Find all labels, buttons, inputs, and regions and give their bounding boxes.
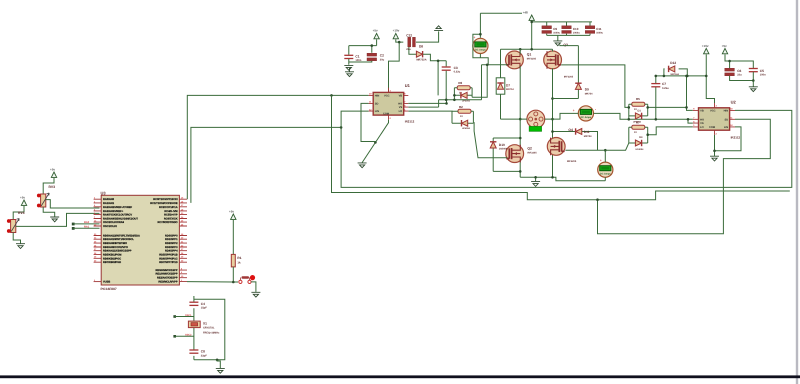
U1 COM diagonal to ground [362, 120, 388, 163]
capacitor C10 [562, 22, 581, 36]
wire C3 bottom to rail [445, 71, 447, 100]
svg-text:SD: SD [375, 102, 379, 105]
diode D8 [416, 45, 426, 62]
+48 supply arrow [523, 11, 535, 22]
junction [232, 281, 235, 284]
diode D11 [553, 128, 598, 150]
capacitor C1 [344, 54, 361, 62]
svg-text:RD6/SPP6/P1C: RD6/SPP6/P1C [159, 257, 177, 260]
wire C1/C2 bottom [349, 59, 372, 65]
gate driver U2 IR2112 (mirrored) [693, 99, 741, 139]
svg-text:22u: 22u [406, 48, 411, 51]
capacitor C9 [542, 22, 561, 36]
svg-text:+10v: +10v [393, 28, 400, 32]
svg-text:D7: D7 [506, 83, 510, 87]
+48 bus rail [532, 21, 592, 23]
svg-text:C8: C8 [201, 350, 205, 354]
svg-text:+48: +48 [523, 11, 528, 15]
svg-text:+: + [573, 109, 575, 113]
svg-text:RD7/SPP7/P1D: RD7/SPP7/P1D [159, 261, 177, 264]
svg-text:COM: COM [383, 112, 389, 115]
MCU pin numbers red ticks [94, 197, 184, 282]
svg-text:RD4/SPP4: RD4/SPP4 [165, 250, 178, 253]
gate resistor R5 + diode D1 loop (Q3 gate) [629, 97, 648, 124]
capacitor C7 [651, 76, 669, 119]
svg-text:VS: VS [700, 122, 704, 125]
ground below button [251, 292, 260, 297]
svg-text:U2: U2 [731, 99, 737, 104]
svg-text:RA0/AN0: RA0/AN0 [103, 198, 115, 201]
diode D7 with loop [496, 49, 514, 119]
wire R1 to MCLR [187, 267, 238, 282]
svg-text:RE3/MCLR/VPP: RE3/MCLR/VPP [158, 280, 177, 283]
svg-text:RA5/AN4/SS/HLVDIN/C2OUT: RA5/AN4/SS/HLVDIN/C2OUT [103, 218, 138, 221]
svg-text:1k: 1k [237, 260, 241, 264]
diode D10 with loop [490, 138, 520, 171]
ground below RV4 [13, 233, 25, 249]
svg-text:RA2/AN2/VREF-/CVREF: RA2/AN2/VREF-/CVREF [103, 206, 133, 209]
svg-text:LIN: LIN [375, 110, 379, 113]
svg-text:+: + [600, 158, 602, 162]
svg-text:U1: U1 [405, 83, 411, 88]
svg-text:LO: LO [700, 126, 704, 129]
ground below C1 [344, 65, 353, 70]
svg-text:1000u: 1000u [596, 32, 603, 35]
wire D8 right to C3/VB net [423, 54, 446, 95]
U1 HO rail to R6 [408, 100, 481, 107]
bridge top rail [501, 22, 553, 49]
ammeter AM3 wiring [604, 150, 606, 181]
svg-text:C7: C7 [662, 82, 666, 86]
U1 SD wire to diagonal [361, 103, 375, 142]
svg-text:D8: D8 [419, 45, 423, 49]
ground bottom crystal [216, 368, 225, 373]
capacitor C5 [749, 69, 766, 77]
gate resistor R7 + diode D4 loop (Q4 gate) [629, 120, 648, 150]
svg-text:VB: VB [399, 94, 403, 97]
svg-text:RC0/T1OSO/T13CKI: RC0/T1OSO/T13CKI [153, 198, 178, 201]
resistor R1 [231, 254, 241, 267]
ground below U2 [710, 156, 719, 161]
net label wire RA0 [72, 221, 100, 225]
svg-text:1000u: 1000u [553, 32, 560, 35]
crystal X1 [188, 321, 220, 334]
svg-text:0.25u: 0.25u [662, 87, 669, 90]
svg-text:HO: HO [398, 102, 402, 105]
svg-text:D10: D10 [499, 143, 505, 147]
power +5v above RV4 [13, 196, 26, 220]
svg-text:MR752A: MR752A [671, 73, 680, 76]
gate resistor R6 + diode D5 loop (Q1 gate) [454, 81, 472, 102]
svg-text:R7: R7 [636, 120, 640, 124]
svg-text:RE1/AN6/CK2SPP: RE1/AN6/CK2SPP [156, 273, 178, 276]
svg-text:MR752A: MR752A [416, 59, 426, 62]
MCU pin names text [103, 198, 140, 283]
ammeter AM1 wiring [473, 13, 522, 65]
svg-text:+: + [474, 36, 476, 40]
capacitor C11 [585, 22, 603, 36]
MCU pin stubs left group2 RB [94, 236, 102, 263]
svg-text:LO: LO [399, 110, 403, 113]
svg-text:VB: VB [700, 109, 704, 112]
R7 loop to U2 LO [648, 127, 693, 135]
svg-text:RE2/AN7/OESPP: RE2/AN7/OESPP [157, 277, 178, 280]
ground above U1 [345, 68, 354, 77]
Q1 gate wire [472, 65, 507, 100]
capacitor C4 [189, 302, 207, 310]
svg-text:LIN: LIN [724, 126, 728, 129]
svg-text:IRF3205: IRF3205 [527, 57, 537, 60]
svg-text:1N5408: 1N5408 [499, 148, 508, 151]
svg-text:1000u: 1000u [573, 32, 580, 35]
Q3 gate wire [561, 65, 629, 108]
power +5v above C1/C2 [373, 28, 380, 38]
svg-text:RA4/T0CKI/C1OUT/RCV: RA4/T0CKI/C1OUT/RCV [103, 213, 132, 216]
Q4 gate wire with diagonal [565, 143, 628, 150]
svg-text:IR2112: IR2112 [405, 119, 415, 123]
capacitor C2 electrolytic [367, 53, 385, 61]
transistor Q1 [506, 51, 537, 69]
potentiometer RV4 [7, 211, 25, 233]
svg-text:RC7/RX/DT/SDO: RC7/RX/DT/SDO [158, 221, 178, 224]
U1 pin stubs [369, 88, 409, 120]
wire MCU RC1 to U1 LIN and U2 HIN loop [191, 110, 792, 202]
bottom dark bar [0, 375, 800, 378]
push button [239, 275, 255, 284]
svg-text:Q3: Q3 [563, 43, 568, 47]
svg-text:RD3/SPP3: RD3/SPP3 [165, 246, 178, 249]
U1 LO wire to R2 [408, 110, 452, 112]
wire MCU RC0 to U1 HIN and U2 SD loop [187, 95, 368, 199]
svg-text:C11: C11 [596, 27, 602, 31]
svg-text:OSC2: OSC2 [185, 334, 192, 337]
MCU pin stub VUSB [94, 281, 102, 283]
svg-text:D12: D12 [670, 61, 676, 65]
left bridge leg [519, 49, 521, 177]
power +5v above RV3 [43, 168, 57, 195]
svg-text:IRF3205: IRF3205 [564, 75, 574, 78]
svg-text:UF4004: UF4004 [462, 127, 471, 130]
svg-text:X1: X1 [203, 321, 207, 325]
junction crystal bottom [216, 359, 219, 362]
wire button to ground [251, 282, 256, 292]
svg-text:R6: R6 [458, 81, 462, 85]
transistor Q2 [506, 145, 537, 163]
svg-text:RE0/AN5/CK1SPP: RE0/AN5/CK1SPP [156, 269, 178, 272]
net label wire RA1 [72, 226, 100, 230]
svg-text:20u: 20u [380, 58, 385, 61]
svg-text:RB7/KBI3/PGD: RB7/KBI3/PGD [103, 261, 121, 264]
svg-text:IRF3205: IRF3205 [527, 151, 537, 154]
svg-text:0.22u: 0.22u [454, 70, 461, 73]
potentiometer RV3 [37, 185, 55, 207]
ammeter AM1 [473, 36, 488, 54]
svg-text:FREQ=16MHz: FREQ=16MHz [203, 331, 220, 334]
svg-text:RB6/KBI2/PGC: RB6/KBI2/PGC [103, 257, 121, 260]
svg-text:UF4004: UF4004 [636, 148, 645, 151]
svg-text:MR754: MR754 [506, 88, 514, 91]
ammeter AM2 wiring [553, 113, 693, 119]
svg-text:-: - [595, 108, 596, 112]
wire C12 right to ground [416, 31, 439, 42]
svg-text:100n: 100n [760, 74, 766, 77]
motor [527, 110, 545, 131]
ground above C12 [434, 26, 443, 31]
svg-text:RB2/AN8/INT2/VMO: RB2/AN8/INT2/VMO [103, 242, 127, 245]
power +5v right [722, 44, 754, 68]
svg-text:COM: COM [709, 126, 715, 129]
svg-text:IR2112: IR2112 [731, 136, 741, 140]
ground below U1 [358, 163, 367, 168]
capacitor C6 electrolytic [725, 68, 742, 76]
crystal subcircuit box wires [194, 296, 225, 360]
gate resistor R2 + diode D3 loop (Q2 gate) [452, 105, 473, 130]
Q2 gate wire with diagonal [473, 123, 507, 158]
svg-text:MR754: MR754 [584, 135, 592, 138]
svg-text:C12: C12 [406, 33, 412, 37]
svg-text:HIN: HIN [724, 109, 729, 112]
U2 COM + LIN loop to ground [715, 127, 742, 156]
svg-text:RB4/AN11/KBI0/CSSPP: RB4/AN11/KBI0/CSSPP [103, 250, 132, 253]
svg-text:HO: HO [700, 118, 704, 121]
svg-text:CRYSTAL: CRYSTAL [203, 327, 215, 330]
svg-text:RB5/KBI1/PGM: RB5/KBI1/PGM [103, 254, 121, 257]
svg-text:R2: R2 [459, 105, 463, 109]
bridge bottom rail + ground [520, 177, 605, 181]
svg-text:VCC: VCC [710, 109, 716, 112]
svg-text:+5v: +5v [50, 168, 55, 172]
right bridge leg [552, 49, 554, 177]
svg-text:+10v: +10v [702, 44, 709, 48]
svg-text:15pF: 15pF [201, 307, 207, 310]
wire RV4 wiper to MCU [16, 213, 100, 226]
svg-text:D1: D1 [638, 109, 642, 112]
svg-text:C9: C9 [553, 27, 557, 31]
svg-text:VUSB: VUSB [103, 281, 110, 284]
svg-text:HIN: HIN [375, 94, 380, 97]
transistor Q4 (mirrored) [547, 128, 577, 163]
svg-text:RV3: RV3 [49, 185, 56, 189]
svg-text:SD: SD [724, 118, 728, 121]
svg-text:22pF: 22pF [201, 354, 207, 357]
R5 loop to U2 VB [648, 76, 693, 111]
svg-text:R5: R5 [636, 97, 640, 101]
svg-text:VS: VS [399, 106, 403, 109]
svg-text:VCC: VCC [384, 94, 390, 97]
ammeter AM2 [573, 106, 596, 121]
svg-text:C6: C6 [737, 69, 741, 73]
svg-text:IRF3205: IRF3205 [567, 160, 577, 163]
C5/C6 bottom rail + ground [730, 72, 754, 81]
svg-text:RD0/SPP0: RD0/SPP0 [165, 235, 178, 238]
svg-text:RC6/TX/CK: RC6/TX/CK [164, 218, 178, 221]
svg-text:RB1/AN10/INT1/SCK/SCL: RB1/AN10/INT1/SCK/SCL [103, 238, 134, 241]
capacitor C8 [189, 350, 207, 358]
svg-text:OSC1/CLKI: OSC1/CLKI [103, 225, 117, 228]
transistor Q3 (mirrored) [544, 51, 574, 78]
svg-text:D9: D9 [585, 88, 589, 92]
svg-text:RV4: RV4 [18, 211, 25, 215]
power +10v right [702, 44, 715, 103]
ammeter AM3 [598, 158, 613, 177]
svg-text:C2: C2 [380, 54, 384, 58]
microcontroller U3 PIC16F887 [101, 191, 180, 291]
wire +10v to C12 and U1 VCC [389, 39, 417, 92]
svg-text:C5: C5 [760, 69, 764, 73]
wire C1/C2 top rail [349, 39, 377, 54]
svg-text:RA1/AN1: RA1/AN1 [103, 202, 115, 205]
svg-text:OSC2/CLKO/RA6: OSC2/CLKO/RA6 [103, 221, 125, 224]
motor leads [520, 118, 552, 120]
capacitor C12 electrolytic [406, 33, 415, 50]
svg-text:Q2: Q2 [527, 146, 532, 150]
power +5v above R1 [229, 210, 236, 255]
svg-text:RD1/SPP1: RD1/SPP1 [165, 238, 178, 241]
svg-text:+5v: +5v [229, 210, 234, 214]
svg-text:+5v: +5v [20, 196, 25, 200]
svg-text:PIC16F887: PIC16F887 [101, 287, 117, 291]
caps bottom rail + ground [547, 35, 590, 40]
capacitor C3 [442, 66, 461, 74]
MCU pin stubs right [179, 199, 187, 281]
svg-text:C3: C3 [454, 66, 458, 70]
right pane edge [796, 0, 798, 384]
svg-text:C1: C1 [355, 54, 359, 58]
svg-text:D4: D4 [639, 136, 643, 139]
svg-text:RC5/D+/VP: RC5/D+/VP [164, 213, 178, 216]
OSC stub wires [173, 314, 194, 338]
gate driver U1 IR2112 [369, 83, 415, 123]
svg-text:+5v: +5v [722, 44, 727, 48]
diode D12 with loop [656, 61, 706, 76]
MCU pin stubs left group1 [94, 199, 102, 226]
wire RV3 wiper to MCU [46, 200, 100, 208]
svg-text:RB3/AN9/CCP2/VPO: RB3/AN9/CCP2/VPO [103, 246, 128, 249]
U2 VS stub branch [688, 119, 693, 123]
svg-text:RD5/SPP5/P1B: RD5/SPP5/P1B [159, 254, 177, 257]
svg-text:RD2/SPP2: RD2/SPP2 [165, 242, 178, 245]
svg-text:22u: 22u [737, 74, 742, 77]
svg-text:OSC1: OSC1 [185, 314, 192, 317]
svg-text:C4: C4 [201, 302, 205, 306]
diode D9 [553, 45, 594, 99]
ground below RV3 [43, 207, 59, 222]
svg-text:RC2/CCP1/P1A: RC2/CCP1/P1A [159, 206, 178, 209]
svg-text:+5v: +5v [373, 28, 378, 32]
svg-text:Q1: Q1 [527, 53, 532, 57]
power +10v above U1 [393, 28, 400, 38]
svg-text:RB0/AN12/INT0/FLT0/SDI/SDA: RB0/AN12/INT0/FLT0/SDI/SDA [103, 235, 140, 238]
wire to ground bottom [217, 360, 220, 368]
svg-text:C10: C10 [573, 27, 579, 31]
svg-text:RC1/T1OSI/CCP2/UOE: RC1/T1OSI/CCP2/UOE [150, 202, 178, 205]
svg-text:MR754: MR754 [585, 92, 593, 95]
svg-text:D11: D11 [584, 130, 590, 134]
